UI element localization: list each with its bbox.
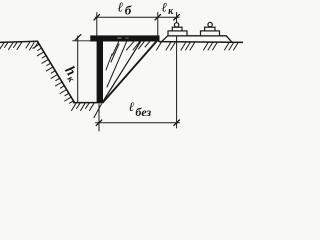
extension line at wall face (left end of l_b)	[96, 13, 98, 36]
slope hatching	[33, 44, 74, 103]
svg-text:ℓк: ℓк	[162, 0, 175, 17]
left rail pad	[172, 27, 182, 31]
h_k dimension line	[77, 36, 79, 102]
rail axis / extension line (left rail)	[176, 12, 178, 128]
ground line left	[0, 41, 38, 42]
prism hatch line 2	[107, 42, 127, 87]
extension line below wall (left end of l_bez)	[98, 104, 100, 131]
prism hatch line 1	[104, 42, 141, 101]
left rail circle	[174, 23, 178, 27]
tick at rail axis (bottom)	[174, 120, 180, 126]
ballast prism trapezoid	[161, 36, 232, 43]
ground hatching left	[0, 43, 38, 50]
svg-text:ℓбез: ℓбез	[129, 99, 152, 119]
tick at wall face	[94, 14, 100, 20]
trench floor line	[74, 102, 104, 104]
ground beam (thick black bar on berm)	[90, 35, 159, 41]
left sleeper	[168, 31, 187, 36]
h_k top reference line	[73, 40, 97, 42]
dimension line l_bez	[96, 122, 180, 124]
sheet-pile wall	[97, 41, 103, 103]
slip line of collapse prism	[103, 41, 157, 102]
dimension line l_b and l_k	[96, 16, 180, 18]
extension line at beam end / ballast toe	[157, 12, 159, 35]
svg-text:hк: hк	[60, 63, 83, 85]
floor hatching	[72, 103, 102, 117]
ground hatching right	[157, 43, 239, 50]
tick at ballast toe	[155, 14, 161, 20]
h_k top tick	[75, 35, 81, 41]
tick at left end of l_bez	[96, 120, 102, 126]
ground line right (under crane track)	[159, 41, 243, 44]
tick at rail axis (top)	[174, 14, 180, 20]
slope line	[38, 42, 75, 103]
right sleeper	[201, 31, 220, 36]
prism hatch strokes	[106, 42, 150, 70]
svg-text:ℓб: ℓб	[118, 0, 132, 18]
right rail pad	[205, 27, 215, 31]
right rail circle	[208, 22, 212, 26]
beam scan specks	[118, 37, 122, 39]
